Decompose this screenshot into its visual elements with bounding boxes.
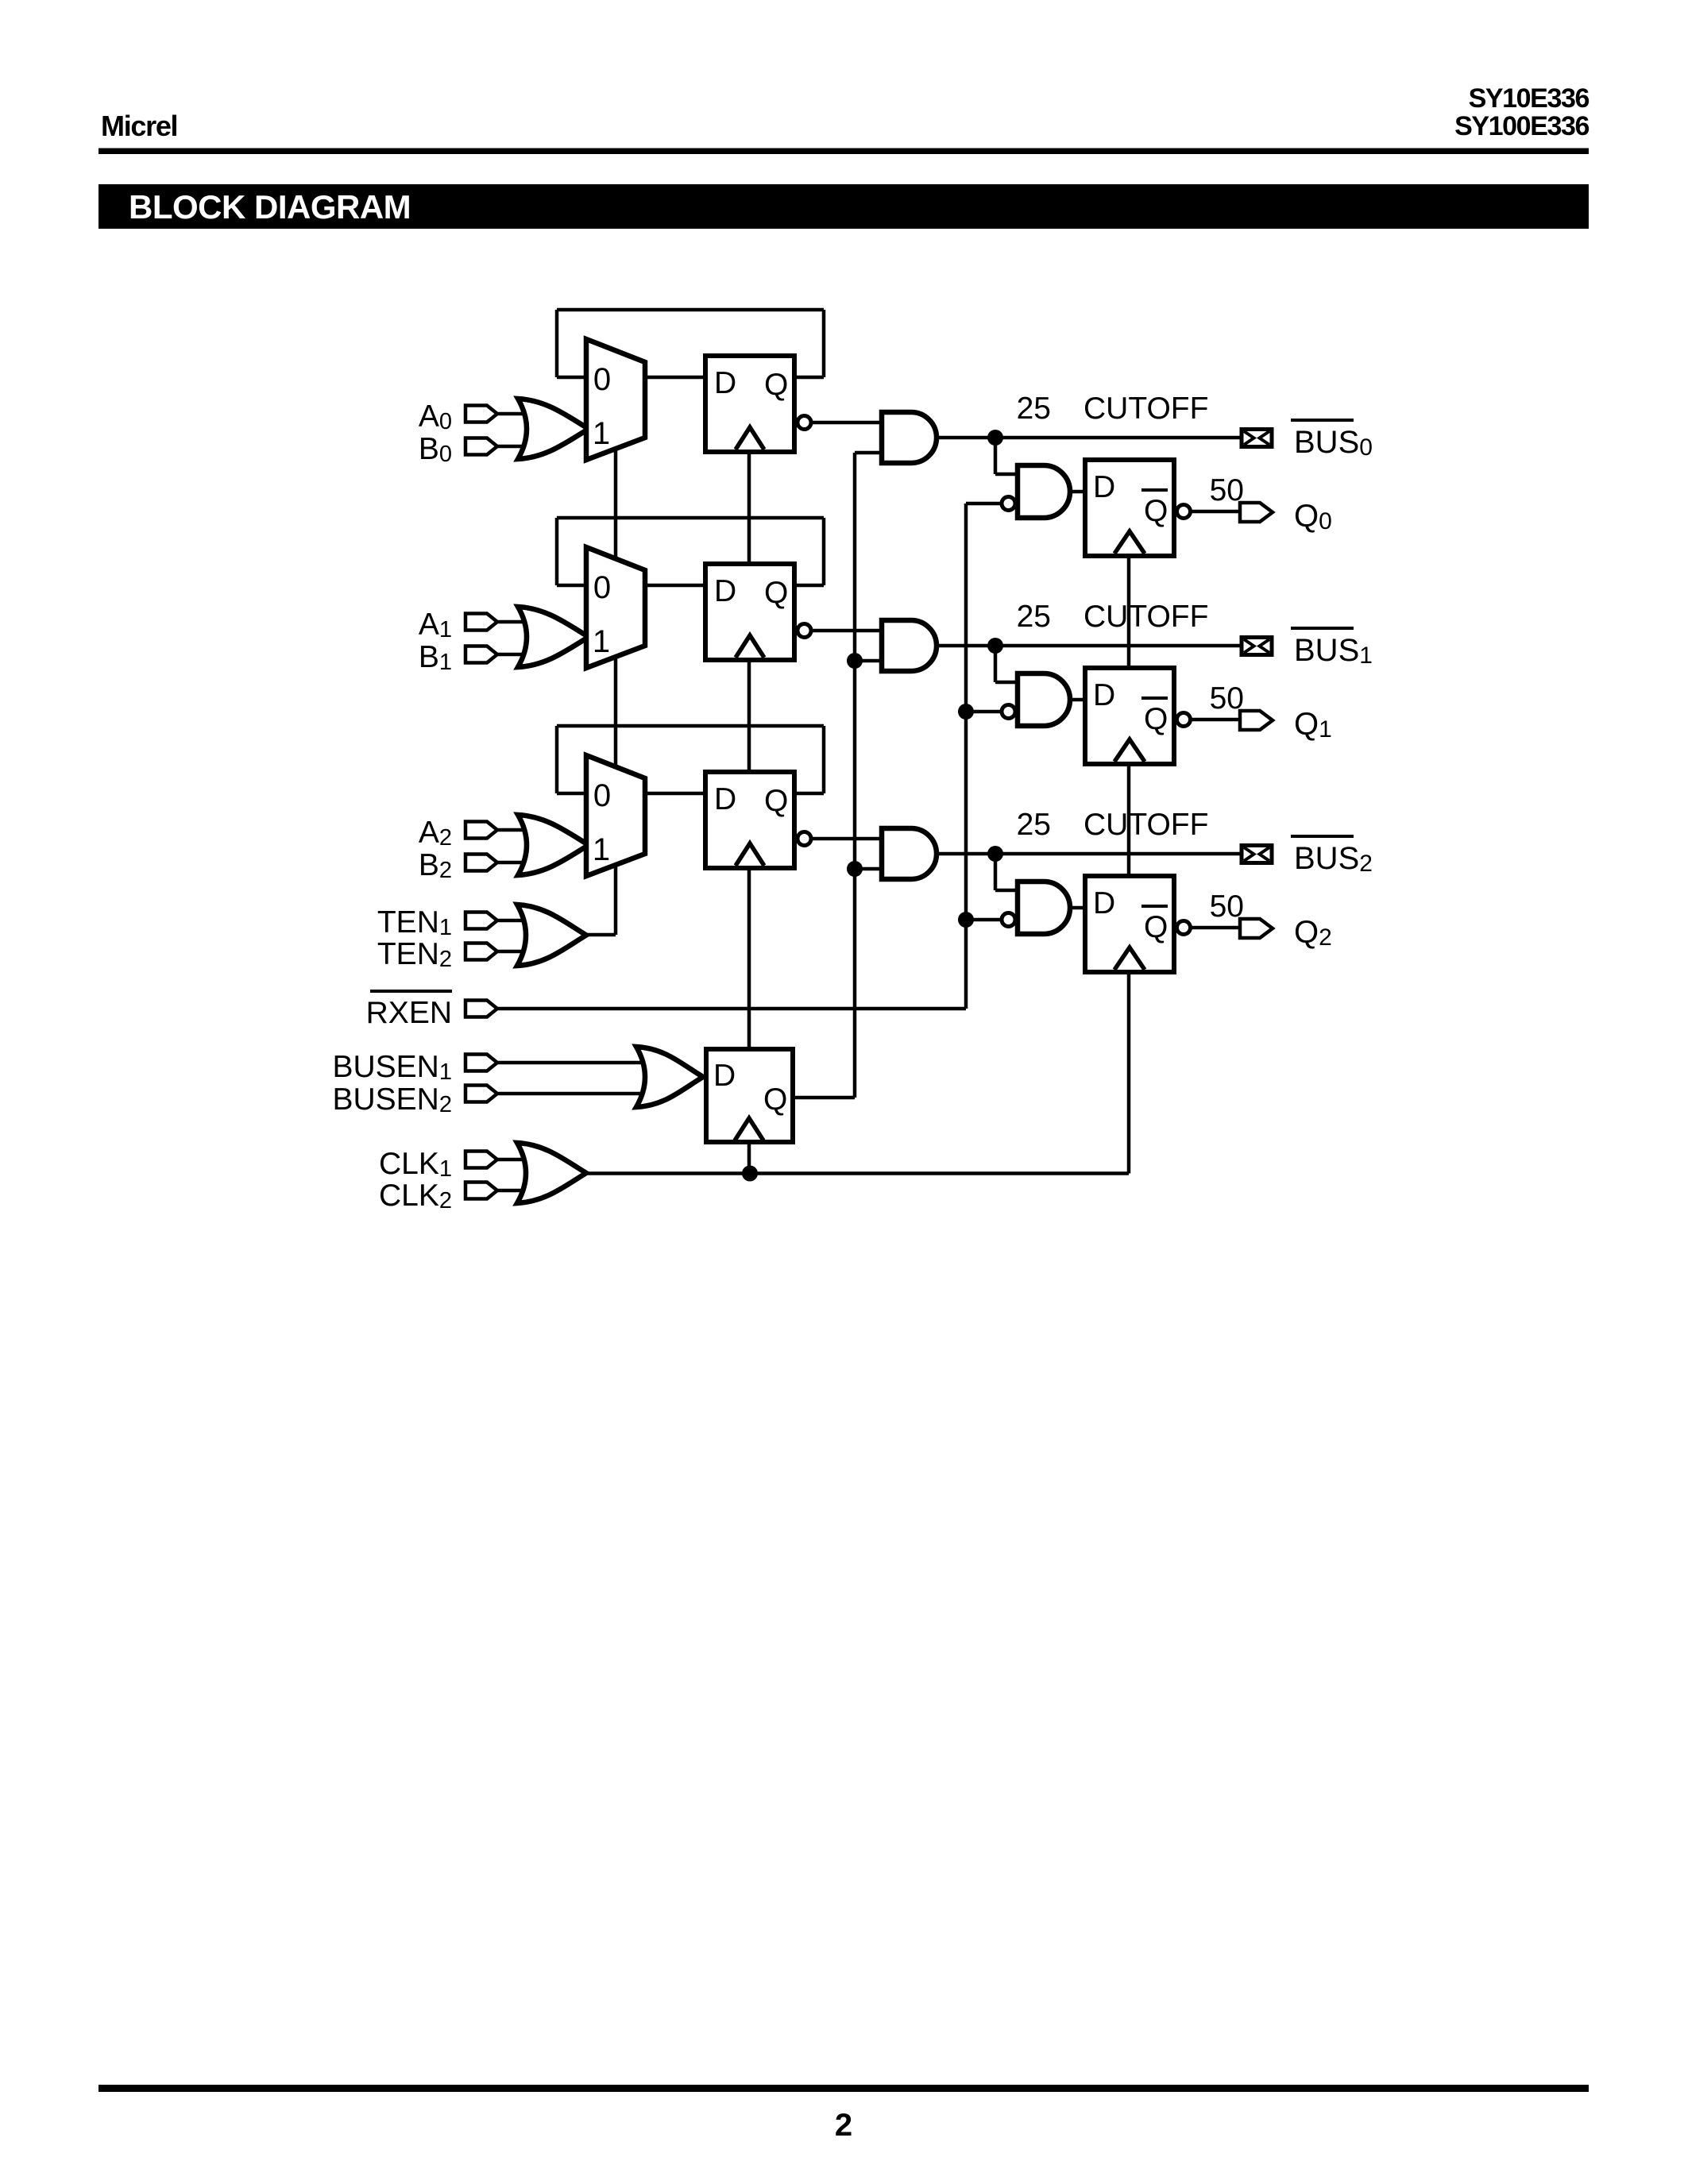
- svg-text:CUTOFF: CUTOFF: [1083, 808, 1208, 842]
- wire B2 input: [496, 861, 556, 865]
- D flip-flop OF1 (output register): [1085, 668, 1174, 764]
- svg-text:BLOCK DIAGRAM: BLOCK DIAGRAM: [129, 188, 411, 226]
- wire enable tap to AND0: [855, 451, 882, 455]
- D flip-flop OF0 (output register): [1085, 460, 1174, 556]
- junction RXEN vertical to NAND1: [958, 704, 974, 720]
- wire CLK2: [496, 1189, 556, 1193]
- wire FF0 inverted output to AND gate: [811, 421, 882, 425]
- wire into NAND2 top input: [995, 889, 1018, 893]
- FF0 inverted output bubble: [798, 416, 811, 430]
- input pin RXEN (active low): [465, 1001, 497, 1017]
- wire A0 input: [496, 412, 556, 416]
- input pin BUSEN2: [465, 1086, 497, 1102]
- wire mux select vertical: [614, 449, 618, 935]
- junction RXEN vertical to NAND2: [958, 912, 974, 928]
- wire TEN1: [496, 919, 540, 923]
- wire TEN OR output: [586, 933, 616, 937]
- net label BUS2: [1291, 835, 1354, 838]
- svg-text:0: 0: [593, 778, 611, 813]
- overline of Q in output register 1: [1141, 696, 1168, 700]
- junction AND0 output node: [987, 430, 1003, 446]
- wire feedback2 right vertical: [822, 726, 826, 793]
- svg-text:D: D: [1093, 886, 1115, 920]
- wire bus-enable vertical: [853, 453, 857, 1098]
- junction enable vertical to AND2: [847, 861, 863, 877]
- wire NAND2 output to D input: [1070, 906, 1085, 910]
- input pin A1: [465, 614, 497, 631]
- wire into NAND0 top input: [995, 473, 1018, 477]
- wire AND0 output down to NAND0: [994, 438, 998, 474]
- svg-text:D: D: [714, 366, 736, 400]
- section banner BLOCK DIAGRAM: [98, 184, 1589, 229]
- svg-text:Q: Q: [763, 1082, 787, 1117]
- net label BUS0: [1291, 419, 1354, 422]
- output register 1 inverted output bubble: [1177, 713, 1191, 727]
- svg-text:CUTOFF: CUTOFF: [1083, 392, 1208, 426]
- svg-text:0: 0: [593, 362, 611, 397]
- wire BUSEN flip-flop Q output: [795, 1096, 855, 1100]
- D flip-flop OF2 (output register): [1085, 876, 1174, 972]
- OR gate TEN: [517, 905, 586, 966]
- AND gate G0: [882, 412, 937, 463]
- svg-text:D: D: [1093, 470, 1115, 504]
- FF2 inverted output bubble: [798, 832, 811, 846]
- wire into NAND0 bubble input: [966, 502, 1001, 506]
- OR gate inputs A2 B2: [518, 815, 589, 875]
- bidirectional bus pin BUS0: [1242, 430, 1272, 447]
- wire A2 input: [496, 828, 556, 832]
- bidirectional bus pin BUS2: [1242, 846, 1272, 863]
- NAND gate N2 input bubble: [1002, 913, 1015, 927]
- input pin B2: [465, 855, 497, 871]
- wire AND0 output to BUS0: [937, 436, 1240, 440]
- svg-text:BUSEN1: BUSEN1: [332, 1050, 452, 1085]
- NAND gate N1: [1018, 673, 1070, 726]
- svg-text:0: 0: [593, 570, 611, 605]
- D flip-flop FFE (bus enable register): [706, 1049, 793, 1142]
- wire FF1 inverted output to AND gate: [811, 629, 882, 633]
- wire FF2 Q feedback out: [795, 792, 824, 796]
- net label BUS1: [1291, 627, 1354, 630]
- wire feedback1 right vertical: [822, 518, 826, 585]
- svg-text:25: 25: [1017, 392, 1051, 426]
- svg-text:1: 1: [593, 416, 610, 451]
- bidirectional bus pin BUS1: [1242, 638, 1272, 655]
- wire feedback0 top: [557, 308, 824, 312]
- wire AND1 output to BUS1: [937, 644, 1240, 648]
- AND gate G1: [882, 620, 937, 671]
- wire BUSEN2: [496, 1092, 659, 1096]
- D flip-flop FF1 (input register): [705, 564, 794, 660]
- input pin TEN1: [465, 913, 497, 929]
- svg-text:D: D: [714, 574, 736, 608]
- wire feedback2 top: [557, 724, 824, 728]
- junction AND1 output node: [987, 638, 1003, 654]
- input pin TEN2: [465, 943, 497, 960]
- multiplexer MUX1: [586, 547, 645, 668]
- svg-text:Q: Q: [764, 576, 788, 610]
- pin label RXEN with overline: [370, 990, 452, 993]
- output register 2 inverted output bubble: [1177, 921, 1191, 935]
- wire mux0 data line to D input: [557, 376, 704, 380]
- multiplexer MUX0: [586, 339, 645, 460]
- svg-text:2: 2: [835, 2108, 852, 2143]
- output pin Q2: [1240, 919, 1273, 938]
- svg-text:D: D: [714, 782, 736, 816]
- svg-text:50: 50: [1210, 889, 1244, 924]
- junction CLK to BUSEN flip-flop clock: [742, 1166, 758, 1182]
- wire NAND0 output to D input: [1070, 490, 1085, 494]
- input pin BUSEN1: [465, 1055, 497, 1071]
- wire feedback2 left vertical: [555, 726, 559, 793]
- svg-text:25: 25: [1017, 808, 1051, 842]
- svg-text:25: 25: [1017, 600, 1051, 634]
- wire into NAND1 top input: [995, 681, 1018, 685]
- wire into NAND2 bubble input: [966, 918, 1001, 922]
- NAND gate N2: [1018, 882, 1070, 934]
- output pin Q1: [1240, 711, 1273, 730]
- wire mux1 data line to D input: [557, 584, 704, 588]
- wire mux2 data line to D input: [557, 792, 704, 796]
- input pin CLK1: [465, 1152, 497, 1168]
- svg-text:50: 50: [1210, 473, 1244, 507]
- svg-text:Q: Q: [764, 784, 788, 818]
- wire BUSEN1: [496, 1061, 659, 1065]
- wire AND2 output to BUS2: [937, 852, 1240, 856]
- wire A1 input: [496, 620, 556, 624]
- svg-text:SY10E336: SY10E336: [1469, 83, 1590, 114]
- svg-text:1: 1: [593, 624, 610, 659]
- svg-text:SY100E336: SY100E336: [1454, 111, 1589, 141]
- output pin Q0: [1240, 503, 1273, 522]
- input pin B0: [465, 438, 497, 455]
- wire RXEN horizontal: [497, 1007, 966, 1011]
- overline of Q in output register 0: [1141, 488, 1168, 492]
- AND gate G2: [882, 828, 937, 879]
- input pin A0: [465, 406, 497, 423]
- wire Q0 output: [1191, 510, 1240, 514]
- svg-text:D: D: [713, 1059, 736, 1093]
- D flip-flop FF2 (input register): [705, 772, 794, 868]
- header rule: [98, 149, 1589, 155]
- svg-text:50: 50: [1210, 681, 1244, 716]
- wire into NAND1 bubble input: [966, 710, 1001, 714]
- junction enable vertical to AND1: [847, 653, 863, 669]
- input pin CLK2: [465, 1183, 497, 1199]
- svg-text:1: 1: [593, 832, 610, 867]
- junction AND2 output node: [987, 846, 1003, 862]
- wire CLK1: [496, 1158, 556, 1162]
- svg-text:CUTOFF: CUTOFF: [1083, 600, 1208, 634]
- wire FF0 Q feedback out: [795, 376, 824, 380]
- overline of Q in output register 2: [1141, 905, 1168, 908]
- wire left flip-flop clock chain vertical: [747, 454, 751, 1174]
- wire Q2 output: [1191, 926, 1240, 930]
- OR gate inputs A1 B1: [518, 607, 589, 667]
- NAND gate N0: [1018, 465, 1070, 518]
- wire NAND1 output to D input: [1070, 698, 1085, 702]
- input pin A2: [465, 822, 497, 839]
- svg-text:D: D: [1093, 678, 1115, 712]
- D flip-flop FF0 (input register): [705, 356, 794, 452]
- wire enable tap to AND1: [855, 659, 882, 663]
- FF1 inverted output bubble: [798, 624, 811, 638]
- svg-text:BUSEN2: BUSEN2: [332, 1082, 452, 1117]
- footer rule: [98, 2085, 1589, 2092]
- input pin B1: [465, 646, 497, 663]
- NAND gate N0 input bubble: [1002, 497, 1015, 511]
- wire feedback0 left vertical: [555, 310, 559, 377]
- wire RXEN vertical: [964, 504, 968, 1009]
- wire feedback1 left vertical: [555, 518, 559, 585]
- wire CLK distribution horizontal: [586, 1171, 1129, 1175]
- output register 0 inverted output bubble: [1177, 505, 1191, 519]
- wire feedback1 top: [557, 516, 824, 520]
- svg-text:Q: Q: [1144, 702, 1168, 736]
- OR gate inputs A0 B0: [518, 399, 589, 459]
- wire AND1 output down to NAND1: [994, 646, 998, 682]
- svg-text:Q: Q: [1144, 494, 1168, 528]
- wire Q1 output: [1191, 718, 1240, 722]
- wire TEN2: [496, 950, 540, 954]
- wire FF2 inverted output to AND gate: [811, 837, 882, 841]
- wire enable tap to AND2: [855, 867, 882, 871]
- svg-text:Q: Q: [1144, 910, 1168, 944]
- wire B0 input: [496, 445, 556, 449]
- svg-text:Q: Q: [764, 368, 788, 402]
- wire right flip-flop clock chain vertical: [1127, 558, 1131, 1174]
- wire B1 input: [496, 653, 556, 657]
- wire FF1 Q feedback out: [795, 584, 824, 588]
- svg-text:Micrel: Micrel: [101, 110, 177, 142]
- NAND gate N1 input bubble: [1002, 705, 1015, 719]
- multiplexer MUX2: [586, 755, 645, 876]
- svg-text:RXEN: RXEN: [366, 996, 452, 1030]
- wire AND2 output down to NAND2: [994, 854, 998, 890]
- wire feedback0 right vertical: [822, 310, 826, 377]
